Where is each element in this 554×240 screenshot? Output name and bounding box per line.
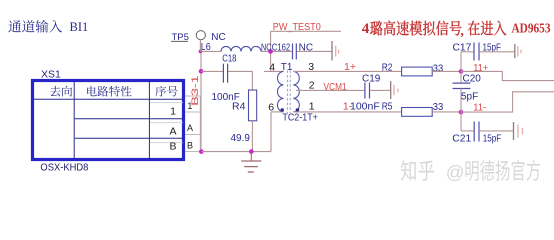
no-connect marker after C21 bbox=[513, 122, 515, 140]
svg-text:BI1: BI1 bbox=[70, 20, 89, 34]
wire PW_TEST0 horizontal bbox=[271, 30, 341, 32]
pin B box bbox=[185, 135, 200, 152]
TP5 stem wire bbox=[199, 40, 201, 52]
wire ground row bbox=[201, 151, 271, 153]
svg-text:NC: NC bbox=[261, 42, 272, 53]
svg-text:11+: 11+ bbox=[473, 62, 488, 74]
T1 secondary winding bbox=[293, 71, 299, 112]
no-connect marker after C17 bbox=[514, 44, 516, 58]
table row line 2 bbox=[75, 137, 183, 139]
svg-text:C162: C162 bbox=[272, 42, 291, 53]
resistor R5 body bbox=[402, 108, 433, 117]
capacitor C162 plates bbox=[292, 43, 294, 59]
svg-text:NC: NC bbox=[211, 32, 225, 43]
junction at pin B bbox=[199, 149, 204, 154]
wire R4 bottom lead bbox=[251, 121, 253, 152]
wire C20 bottom lead bbox=[460, 89, 462, 113]
table gray pin row lines bbox=[150, 102, 183, 104]
wire PW_TEST0 vertical to T1 pin 4 bbox=[270, 31, 272, 71]
wire output 11+ bbox=[461, 71, 554, 80]
svg-text:A: A bbox=[187, 123, 193, 133]
svg-text:R2: R2 bbox=[382, 61, 393, 73]
svg-text:1: 1 bbox=[309, 101, 315, 113]
ground symbol bbox=[250, 152, 252, 161]
no-connect marker after C19 bbox=[390, 81, 392, 99]
wire C21 left lead bbox=[461, 130, 474, 132]
inductor L6 coil bbox=[221, 46, 261, 51]
TP5 underline bbox=[171, 40, 188, 42]
wire output 11- bbox=[461, 92, 554, 112]
wire C17 right lead bbox=[480, 51, 514, 53]
sheet label 通道输入 BI1 bbox=[8, 20, 62, 33]
svg-text:1+: 1+ bbox=[344, 61, 356, 73]
svg-text:TC2-1T+: TC2-1T+ bbox=[282, 111, 318, 123]
junction at C18 tap bbox=[199, 69, 204, 74]
connector XS1 table frame bbox=[33, 81, 184, 160]
capacitor C21 plates bbox=[473, 122, 475, 142]
wire junction down to C21 row bbox=[460, 112, 462, 131]
svg-text:B: B bbox=[187, 141, 193, 151]
wire T1 pin 6 lead bbox=[271, 111, 284, 113]
wire C162 to NC marker bbox=[297, 50, 332, 52]
wire T1 pin 2 to C19 bbox=[296, 89, 365, 91]
resistor R4 body bbox=[249, 90, 257, 121]
resistor R2 body bbox=[402, 67, 433, 76]
watermark 知乎 @明德扬官方 bbox=[401, 160, 434, 181]
wire T1 pin 6 down to ground row bbox=[270, 112, 272, 152]
svg-text:49.9: 49.9 bbox=[231, 133, 251, 144]
wire T1 pin 1 to R5 bbox=[293, 111, 401, 113]
svg-text:2: 2 bbox=[309, 79, 315, 91]
wire C21 right lead bbox=[480, 130, 513, 132]
testpoint TP5 circle bbox=[196, 31, 205, 40]
wire C18 left bbox=[201, 70, 223, 72]
svg-text:VCM1: VCM1 bbox=[324, 82, 348, 93]
svg-text:4: 4 bbox=[362, 20, 370, 37]
svg-text:1: 1 bbox=[170, 105, 176, 117]
svg-text:B: B bbox=[169, 140, 176, 152]
capacitor C17 plates bbox=[473, 43, 475, 61]
table header 序号 bbox=[155, 86, 177, 97]
no-connect marker after C162 bbox=[331, 41, 333, 61]
junction at R4 ground bbox=[249, 149, 254, 154]
wire C20 top lead bbox=[460, 71, 462, 83]
svg-text:100nF: 100nF bbox=[350, 101, 380, 113]
svg-text:15pF: 15pF bbox=[483, 134, 502, 145]
wire R2 to junction bbox=[432, 70, 461, 72]
wire L6 left lead bbox=[201, 50, 221, 52]
table header 去向 bbox=[50, 86, 72, 97]
table header 电路特性 bbox=[87, 86, 132, 97]
T1 core dashed lines bbox=[286, 71, 288, 114]
wire C18 to R4 bbox=[228, 70, 252, 72]
svg-text:C18: C18 bbox=[222, 54, 237, 65]
wire R5 to junction bbox=[432, 111, 461, 113]
svg-text:B3-1: B3-1 bbox=[190, 75, 201, 106]
svg-text:R4: R4 bbox=[232, 101, 246, 113]
svg-text:C17: C17 bbox=[453, 42, 472, 53]
capacitor C19 plates bbox=[364, 83, 366, 99]
svg-text:@: @ bbox=[446, 162, 465, 183]
T1 primary winding bbox=[278, 71, 284, 112]
junction PW_TEST0 tap bbox=[268, 49, 273, 54]
wire L6 to C162 bbox=[261, 50, 292, 52]
pin 1 box bbox=[185, 96, 200, 112]
svg-text:A: A bbox=[169, 125, 176, 137]
wire C17 left lead bbox=[461, 51, 474, 53]
wire C19 right lead bbox=[370, 89, 390, 91]
wire T1 pin 3 to R2 bbox=[293, 70, 401, 72]
svg-text:AD9653: AD9653 bbox=[512, 21, 551, 36]
junction bottom bbox=[459, 110, 464, 115]
table header underline bbox=[34, 98, 183, 100]
capacitor C20 plates bbox=[453, 82, 471, 84]
junction at L6 tap bbox=[199, 50, 203, 54]
svg-text:XS1: XS1 bbox=[41, 68, 61, 80]
T1 polarity dots bbox=[281, 108, 284, 111]
wire T1 pin 4 lead bbox=[264, 70, 284, 72]
svg-text:C21: C21 bbox=[452, 134, 471, 145]
svg-text:33: 33 bbox=[433, 101, 444, 113]
wire junction up to C17 row bbox=[460, 52, 462, 72]
svg-text:OSX-KHD8: OSX-KHD8 bbox=[40, 163, 88, 174]
capacitor C18 plates bbox=[222, 64, 224, 83]
wire R4 top lead bbox=[251, 71, 253, 90]
wire main vertical B3-1 net bbox=[200, 51, 202, 151]
table column line 1 bbox=[73, 82, 75, 158]
table column line 2 bbox=[148, 82, 150, 158]
svg-text:33: 33 bbox=[433, 63, 444, 75]
svg-text:,: , bbox=[460, 24, 464, 39]
table row line 1 bbox=[75, 118, 183, 120]
svg-text:R5: R5 bbox=[382, 101, 393, 113]
junction top bbox=[459, 69, 464, 74]
pin A box bbox=[185, 112, 200, 135]
